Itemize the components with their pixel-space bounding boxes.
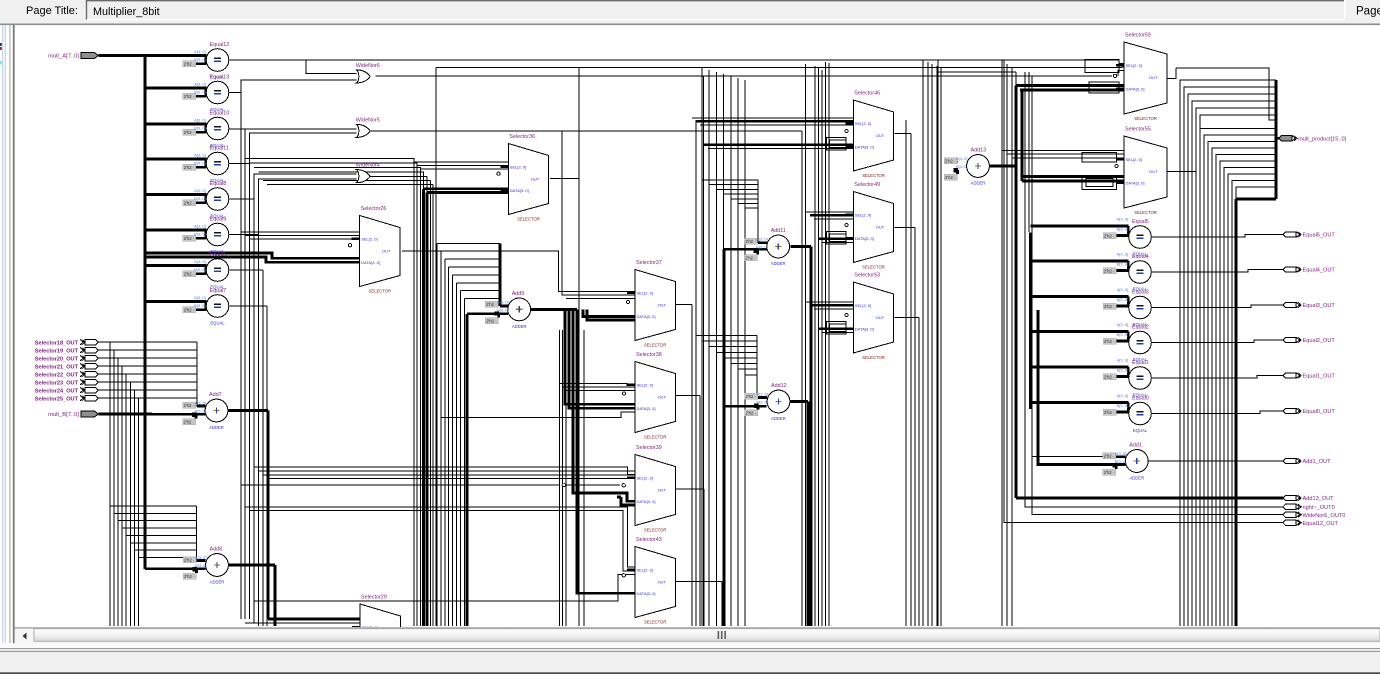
svg-text:2'h2 -: 2'h2 - <box>184 62 195 67</box>
svg-text:B[3..0]: B[3..0] <box>194 267 206 272</box>
svg-text:SELECTOR: SELECTOR <box>644 619 667 624</box>
svg-text:Equal3: Equal3 <box>1132 289 1149 295</box>
svg-text:OUT: OUT <box>657 488 666 493</box>
svg-text:Add11: Add11 <box>771 228 786 234</box>
svg-text:OUT: OUT <box>1149 169 1158 174</box>
svg-text:Selector43: Selector43 <box>636 537 662 543</box>
svg-text:SEL[2..0]: SEL[2..0] <box>1126 157 1142 162</box>
svg-text:2'h2 -: 2'h2 - <box>746 411 757 416</box>
svg-text:Selector55: Selector55 <box>1125 127 1151 133</box>
svg-text:right~_OUT0: right~_OUT0 <box>1303 505 1335 511</box>
svg-text:Add1: Add1 <box>1129 443 1142 449</box>
svg-text:A[3..0]: A[3..0] <box>1117 393 1129 398</box>
svg-text:2'h2 -: 2'h2 - <box>746 394 757 399</box>
svg-text:B[3..0]: B[3..0] <box>194 196 206 201</box>
svg-text:OUT: OUT <box>876 315 885 320</box>
svg-text:Page: Page <box>1356 6 1380 18</box>
svg-text:Add8: Add8 <box>210 547 223 553</box>
svg-text:2'h2 -: 2'h2 - <box>184 574 195 579</box>
svg-text:Equal5: Equal5 <box>1132 219 1149 225</box>
svg-text:A[3..0]: A[3..0] <box>194 118 206 123</box>
svg-text:Add12: Add12 <box>771 383 787 389</box>
svg-text:B[3..0]: B[3..0] <box>194 303 206 308</box>
svg-text:SEL[2..0]: SEL[2..0] <box>855 121 871 126</box>
svg-text:OUT: OUT <box>382 249 391 254</box>
svg-text:Selector59: Selector59 <box>1125 33 1151 39</box>
svg-text:ADDER: ADDER <box>771 416 786 421</box>
svg-text:Equal1: Equal1 <box>1132 360 1149 366</box>
svg-text:SELECTOR: SELECTOR <box>1134 210 1157 215</box>
svg-text:ADDER: ADDER <box>209 425 224 430</box>
svg-text:Selector18_OUT: Selector18_OUT <box>35 340 79 346</box>
svg-text:B[3..0]: B[3..0] <box>956 164 968 169</box>
svg-text:DATA[3..0]: DATA[3..0] <box>637 314 656 319</box>
svg-text:Equal2_OUT: Equal2_OUT <box>1303 338 1336 344</box>
svg-text:Add13: Add13 <box>971 148 987 154</box>
svg-text:SEL[2..0]: SEL[2..0] <box>637 476 653 481</box>
svg-text:DATA[3..0]: DATA[3..0] <box>1126 86 1145 91</box>
svg-text:B[3..0]: B[3..0] <box>756 400 768 405</box>
svg-text:EQUAL: EQUAL <box>1133 428 1148 433</box>
svg-text:DATA[3..0]: DATA[3..0] <box>855 144 874 149</box>
svg-text:Equal8: Equal8 <box>210 181 227 187</box>
svg-text:WideNor6_OUT0: WideNor6_OUT0 <box>1303 513 1346 519</box>
svg-text:Selector46: Selector46 <box>854 91 880 97</box>
svg-text:B[3..0]: B[3..0] <box>195 563 207 568</box>
svg-text:Add7: Add7 <box>209 392 222 398</box>
svg-text:A[3..0]: A[3..0] <box>956 156 968 161</box>
svg-text:OUT: OUT <box>876 225 885 230</box>
svg-text:2'h2 -: 2'h2 - <box>184 201 195 206</box>
svg-text:Selector26: Selector26 <box>361 206 387 212</box>
svg-text:OUT: OUT <box>657 395 666 400</box>
svg-text:B[3..0]: B[3..0] <box>1117 368 1129 373</box>
svg-text:Equal2: Equal2 <box>1132 324 1149 330</box>
svg-text:Equal7: Equal7 <box>210 288 227 294</box>
svg-text:A[3..0]: A[3..0] <box>194 188 206 193</box>
svg-text:DATA[3..0]: DATA[3..0] <box>510 188 529 193</box>
svg-text:OUT: OUT <box>531 177 540 182</box>
svg-text:SELECTOR: SELECTOR <box>644 527 667 532</box>
svg-text:2'h2 -: 2'h2 - <box>1104 470 1115 475</box>
svg-text:Equal9: Equal9 <box>210 216 227 222</box>
svg-text:SEL[2..0]: SEL[2..0] <box>855 303 871 308</box>
svg-text:OUT: OUT <box>1149 75 1158 80</box>
svg-text:Page Title:: Page Title: <box>26 5 78 17</box>
svg-text:SELECTOR: SELECTOR <box>862 264 885 269</box>
svg-text:ADDER: ADDER <box>512 324 527 329</box>
svg-text:2'h2 -: 2'h2 - <box>1104 339 1115 344</box>
svg-text:Selector38: Selector38 <box>636 352 662 358</box>
svg-text:Equal4_OUT: Equal4_OUT <box>1303 268 1336 274</box>
svg-text:Selector24_OUT: Selector24_OUT <box>35 388 79 394</box>
svg-text:SELECTOR: SELECTOR <box>369 288 392 293</box>
svg-text:Equal0_OUT: Equal0_OUT <box>1303 409 1336 415</box>
svg-text:DATA[3..0]: DATA[3..0] <box>855 236 874 241</box>
svg-text:A[3..0]: A[3..0] <box>1117 217 1129 222</box>
svg-text:Equal12: Equal12 <box>210 42 230 48</box>
svg-text:A[3..0]: A[3..0] <box>1117 287 1129 292</box>
svg-text:Selector22_OUT: Selector22_OUT <box>35 372 79 378</box>
svg-text:Add13_OUT: Add13_OUT <box>1303 496 1335 502</box>
svg-text:SELECTOR: SELECTOR <box>862 173 885 178</box>
svg-text:2'h2 -: 2'h2 - <box>745 256 756 261</box>
svg-text:2'h2 -: 2'h2 - <box>1104 233 1115 238</box>
svg-text:SEL[2..0]: SEL[2..0] <box>855 213 871 218</box>
svg-text:Selector25_OUT: Selector25_OUT <box>35 396 79 402</box>
svg-text:B[3..0]: B[3..0] <box>1117 262 1129 267</box>
svg-text:Selector53: Selector53 <box>854 273 880 279</box>
svg-text:A[3..0]: A[3..0] <box>756 237 768 242</box>
svg-text:DATA[3..0]: DATA[3..0] <box>637 591 656 596</box>
svg-text:B[3..0]: B[3..0] <box>1117 403 1129 408</box>
svg-text:B[3..0]: B[3..0] <box>1117 297 1129 302</box>
svg-text:Selector36: Selector36 <box>509 134 535 140</box>
svg-text:SELECTOR: SELECTOR <box>644 342 667 347</box>
svg-text:A[3..0]: A[3..0] <box>194 295 206 300</box>
svg-text:Equal0: Equal0 <box>1132 395 1149 401</box>
svg-text:A[3..0]: A[3..0] <box>1117 322 1129 327</box>
svg-text:2'h2 -: 2'h2 - <box>1104 454 1115 459</box>
svg-text:SELECTOR: SELECTOR <box>517 216 540 221</box>
svg-text:B[3..0]: B[3..0] <box>194 232 206 237</box>
svg-text:Selector49: Selector49 <box>854 182 880 188</box>
svg-text:SEL[2..0]: SEL[2..0] <box>637 383 653 388</box>
svg-text:SELECTOR: SELECTOR <box>1134 116 1157 121</box>
svg-text:DATA[3..0]: DATA[3..0] <box>361 260 380 265</box>
svg-text:2'h2 -: 2'h2 - <box>184 130 195 135</box>
svg-text:2'h2 -: 2'h2 - <box>184 94 195 99</box>
svg-text:B[3..0]: B[3..0] <box>194 126 206 131</box>
svg-text:B[3..0]: B[3..0] <box>194 90 206 95</box>
svg-text:A[3..0]: A[3..0] <box>194 259 206 264</box>
svg-text:ADDER: ADDER <box>1129 476 1144 481</box>
svg-text:mult_A[7..0]: mult_A[7..0] <box>48 54 79 60</box>
svg-text:Selector39: Selector39 <box>636 445 662 451</box>
svg-text:OUT: OUT <box>657 580 666 585</box>
svg-text:Selector29: Selector29 <box>361 595 387 601</box>
svg-text:2'h2 -: 2'h2 - <box>945 159 956 164</box>
svg-text:B[3..0]: B[3..0] <box>1117 227 1129 232</box>
svg-text:A[3..0]: A[3..0] <box>756 392 768 397</box>
svg-text:Equal13: Equal13 <box>210 74 230 80</box>
svg-text:2'h2 -: 2'h2 - <box>1104 268 1115 273</box>
svg-text:2'h2 -: 2'h2 - <box>945 175 956 180</box>
svg-text:EQUAL: EQUAL <box>210 320 225 325</box>
svg-text:B[3..0]: B[3..0] <box>756 245 768 250</box>
svg-text:Equal4: Equal4 <box>1132 254 1149 260</box>
svg-text:A[3..0]: A[3..0] <box>195 555 207 560</box>
svg-text:Equal6: Equal6 <box>210 252 227 258</box>
svg-text:B[3..0]: B[3..0] <box>194 161 206 166</box>
svg-text:Equal10: Equal10 <box>210 110 230 116</box>
svg-text:2'h2 -: 2'h2 - <box>184 420 195 425</box>
svg-text:2'h2 -: 2'h2 - <box>184 272 195 277</box>
svg-text:OUT: OUT <box>876 133 885 138</box>
svg-text:A[3..0]: A[3..0] <box>194 49 206 54</box>
svg-text:B[3..0]: B[3..0] <box>1117 332 1129 337</box>
svg-text:WideNor6: WideNor6 <box>356 63 380 69</box>
svg-text:A[3..0]: A[3..0] <box>194 224 206 229</box>
svg-text:2'h2 -: 2'h2 - <box>745 239 756 244</box>
svg-text:B[3..0]: B[3..0] <box>194 409 206 414</box>
svg-text:B[3..0]: B[3..0] <box>194 57 206 62</box>
svg-text:A[3..0]: A[3..0] <box>1117 358 1129 363</box>
svg-text:WideNor4: WideNor4 <box>356 163 380 169</box>
svg-text:2'h2 -: 2'h2 - <box>184 308 195 313</box>
svg-text:mult_B[7..0]: mult_B[7..0] <box>48 412 79 418</box>
svg-text:2'h2 -: 2'h2 - <box>184 558 195 563</box>
svg-text:Equal5_OUT: Equal5_OUT <box>1303 233 1336 239</box>
svg-text:B[3..0]: B[3..0] <box>1115 459 1127 464</box>
svg-text:Selector19_OUT: Selector19_OUT <box>35 348 79 354</box>
svg-text:A[3..0]: A[3..0] <box>1115 451 1127 456</box>
svg-text:ADDER: ADDER <box>771 261 786 266</box>
svg-text:2'h2 -: 2'h2 - <box>1104 410 1115 415</box>
svg-text:DATA[3..0]: DATA[3..0] <box>637 499 656 504</box>
svg-text:DATA[3..0]: DATA[3..0] <box>1126 180 1145 185</box>
svg-text:2'h2 -: 2'h2 - <box>486 302 497 307</box>
svg-text:Multiplier_8bit: Multiplier_8bit <box>93 6 160 18</box>
svg-text:Equal11: Equal11 <box>210 145 229 151</box>
svg-text:A[3..0]: A[3..0] <box>194 82 206 87</box>
svg-text:2'h2 -: 2'h2 - <box>184 403 195 408</box>
svg-text:SEL[2..0]: SEL[2..0] <box>361 237 377 242</box>
svg-text:2'h2 -: 2'h2 - <box>1104 304 1115 309</box>
svg-text:Equal3_OUT: Equal3_OUT <box>1303 303 1336 309</box>
svg-text:DATA[3..0]: DATA[3..0] <box>855 326 874 331</box>
svg-text:2'h2 -: 2'h2 - <box>184 165 195 170</box>
svg-text:A[3..0]: A[3..0] <box>194 401 206 406</box>
svg-text:WideNor5: WideNor5 <box>356 117 380 123</box>
svg-text:2'h2 -: 2'h2 - <box>486 318 497 323</box>
svg-text:2'h2 -: 2'h2 - <box>184 236 195 241</box>
svg-text:ADDER: ADDER <box>210 580 225 585</box>
svg-text:A[3..0]: A[3..0] <box>194 153 206 158</box>
svg-text:SELECTOR: SELECTOR <box>862 355 885 360</box>
svg-text:SEL[2..0]: SEL[2..0] <box>637 568 653 573</box>
svg-text:Equal12_OUT: Equal12_OUT <box>1303 521 1339 527</box>
svg-text:Selector23_OUT: Selector23_OUT <box>35 380 79 386</box>
svg-text:Add1_OUT: Add1_OUT <box>1303 459 1332 465</box>
svg-text:SEL[2..0]: SEL[2..0] <box>1126 63 1142 68</box>
svg-text:Add9: Add9 <box>512 291 525 297</box>
svg-text:SEL[2..0]: SEL[2..0] <box>510 165 526 170</box>
svg-text:SEL[2..0]: SEL[2..0] <box>637 291 653 296</box>
svg-text:A[3..0]: A[3..0] <box>497 300 509 305</box>
svg-text:Selector37: Selector37 <box>636 260 662 266</box>
svg-text:mult_product[15..0]: mult_product[15..0] <box>1298 136 1346 142</box>
svg-text:OUT: OUT <box>657 303 666 308</box>
svg-text:ADDER: ADDER <box>971 181 986 186</box>
svg-text:A[3..0]: A[3..0] <box>1117 252 1129 257</box>
svg-text:2'h2 -: 2'h2 - <box>1104 374 1115 379</box>
svg-text:DATA[3..0]: DATA[3..0] <box>637 406 656 411</box>
svg-text:B[3..0]: B[3..0] <box>497 307 509 312</box>
svg-text:SELECTOR: SELECTOR <box>644 434 667 439</box>
svg-text:Selector21_OUT: Selector21_OUT <box>35 364 79 370</box>
svg-text:Equal1_OUT: Equal1_OUT <box>1303 374 1336 380</box>
svg-text:Selector20_OUT: Selector20_OUT <box>35 356 79 362</box>
